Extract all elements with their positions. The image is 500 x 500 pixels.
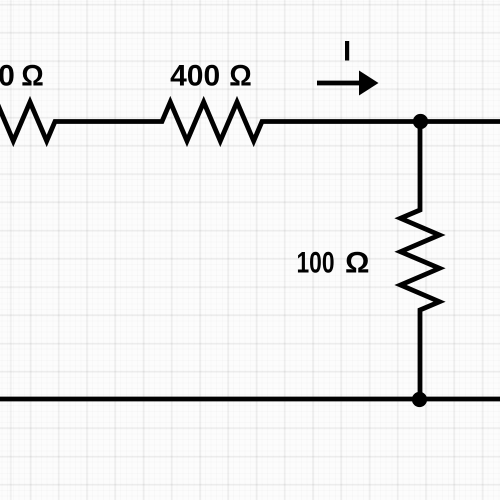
svg-text:100: 100 [297, 247, 335, 280]
svg-text:200: 200 [0, 60, 15, 93]
svg-text:Ω: Ω [21, 60, 44, 93]
svg-text:400: 400 [170, 60, 220, 93]
svg-text:Ω: Ω [229, 60, 252, 93]
svg-text:Ω: Ω [345, 247, 370, 280]
